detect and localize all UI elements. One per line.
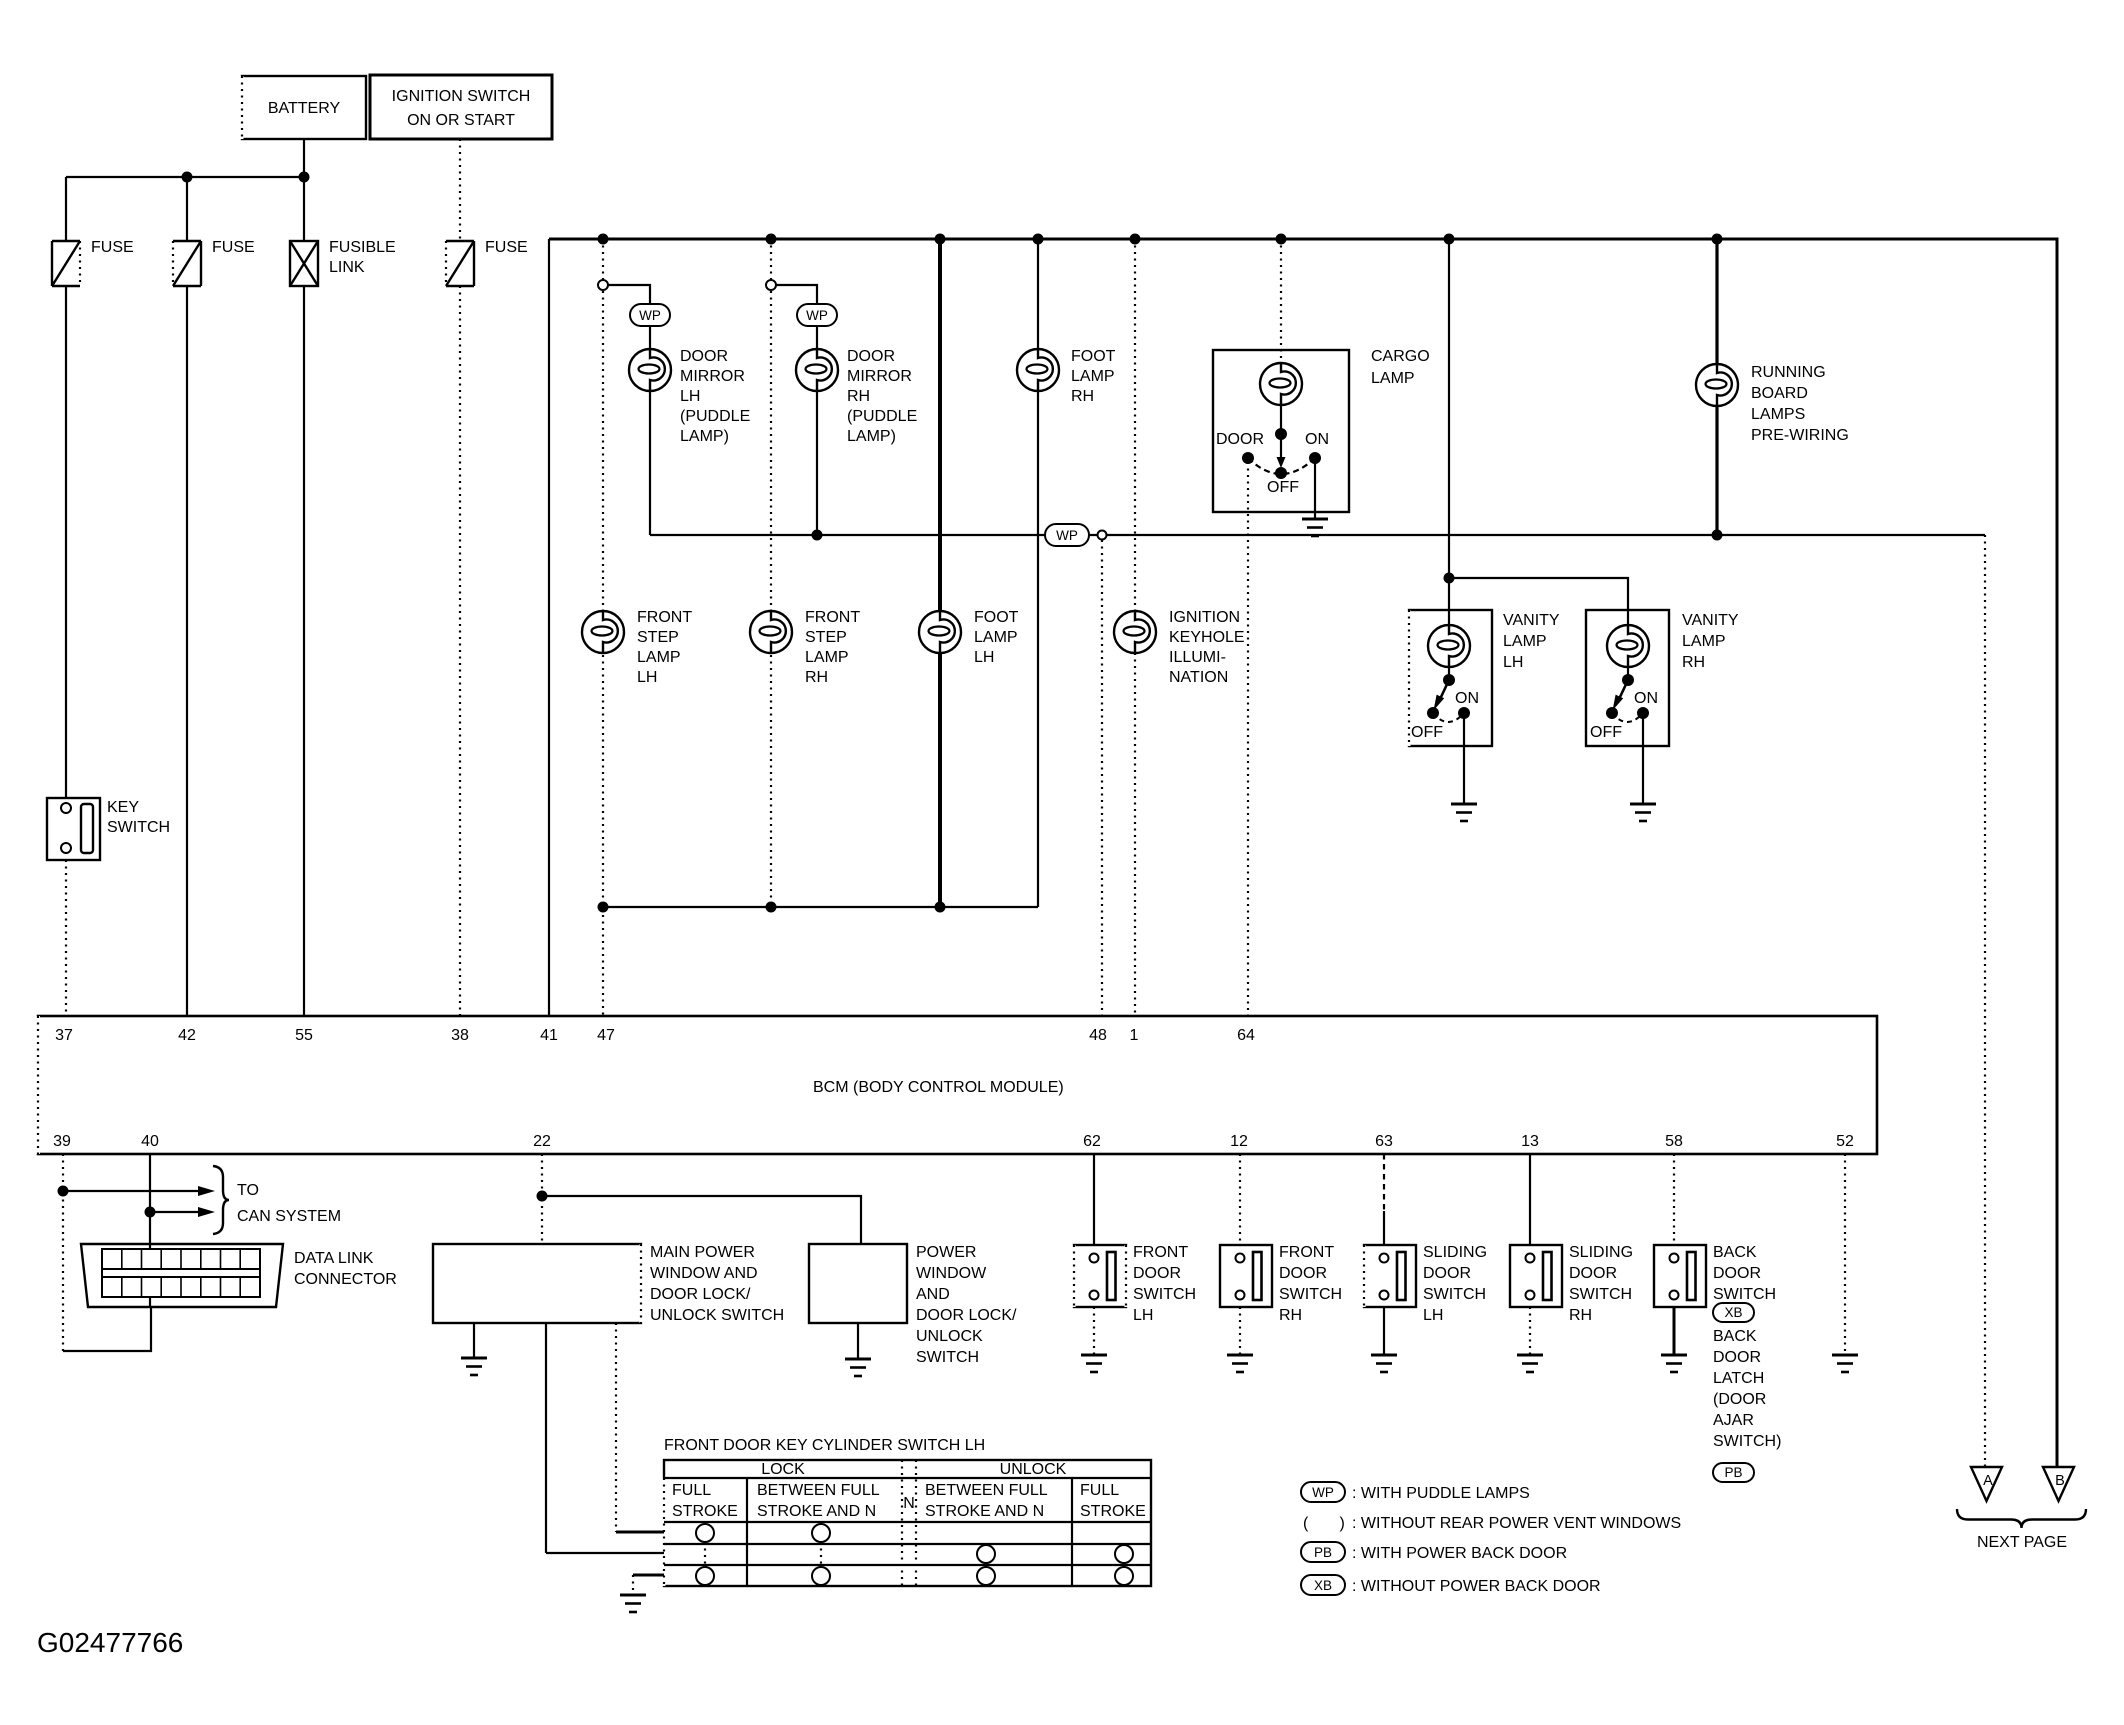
svg-text:BOARD: BOARD [1751, 385, 1808, 402]
svg-text:FULL: FULL [672, 1482, 711, 1499]
svg-text:58: 58 [1665, 1133, 1683, 1150]
svg-text:(PUDDLE: (PUDDLE [680, 408, 750, 425]
svg-text:RH: RH [1682, 654, 1705, 671]
svg-text:LH: LH [637, 669, 657, 686]
svg-text:POWER: POWER [916, 1244, 976, 1261]
svg-text:FRONT: FRONT [1279, 1244, 1334, 1261]
svg-text:DOOR: DOOR [1133, 1265, 1181, 1282]
svg-text:LAMP): LAMP) [680, 428, 729, 445]
svg-text:AND: AND [916, 1286, 950, 1303]
svg-text:DOOR: DOOR [1279, 1265, 1327, 1282]
svg-text:DOOR: DOOR [847, 348, 895, 365]
svg-text:63: 63 [1375, 1133, 1393, 1150]
svg-text:RH: RH [1071, 388, 1094, 405]
svg-text:UNLOCK: UNLOCK [1000, 1461, 1067, 1478]
svg-text:62: 62 [1083, 1133, 1101, 1150]
svg-text:VANITY: VANITY [1503, 612, 1560, 629]
svg-text:: WITH PUDDLE LAMPS: : WITH PUDDLE LAMPS [1352, 1485, 1530, 1502]
svg-text:FULL: FULL [1080, 1482, 1119, 1499]
svg-text:UNLOCK SWITCH: UNLOCK SWITCH [650, 1307, 784, 1324]
svg-text:ON: ON [1634, 690, 1658, 707]
svg-text:DOOR LOCK/: DOOR LOCK/ [916, 1307, 1017, 1324]
svg-text:SWITCH: SWITCH [1423, 1286, 1486, 1303]
svg-text:LOCK: LOCK [761, 1461, 805, 1478]
svg-text:OFF: OFF [1267, 479, 1299, 496]
svg-text:UNLOCK: UNLOCK [916, 1328, 983, 1345]
svg-text:LH: LH [1133, 1307, 1153, 1324]
svg-text:DOOR: DOOR [680, 348, 728, 365]
svg-text:G02477766: G02477766 [37, 1627, 183, 1658]
svg-text:BACK: BACK [1713, 1244, 1757, 1261]
svg-text:BATTERY: BATTERY [268, 100, 341, 117]
svg-text:KEY: KEY [107, 799, 139, 816]
svg-text:LATCH: LATCH [1713, 1370, 1764, 1387]
svg-text:LAMPS: LAMPS [1751, 406, 1805, 423]
svg-text:13: 13 [1521, 1133, 1539, 1150]
svg-text:FUSIBLE: FUSIBLE [329, 239, 396, 256]
svg-text:RH: RH [1569, 1307, 1592, 1324]
svg-text:LH: LH [1423, 1307, 1443, 1324]
svg-text:SWITCH): SWITCH) [1713, 1433, 1781, 1450]
svg-text:WP: WP [806, 308, 828, 323]
svg-text:WINDOW: WINDOW [916, 1265, 987, 1282]
svg-text:12: 12 [1230, 1133, 1248, 1150]
svg-text:OFF: OFF [1411, 724, 1443, 741]
svg-text:( ): ( ) [1303, 1515, 1345, 1532]
svg-text:FUSE: FUSE [485, 239, 528, 256]
svg-text:42: 42 [178, 1027, 196, 1044]
svg-text:FOOT: FOOT [1071, 348, 1116, 365]
svg-text:MIRROR: MIRROR [680, 368, 745, 385]
svg-text:CONNECTOR: CONNECTOR [294, 1271, 397, 1288]
svg-text:LAMP: LAMP [974, 629, 1018, 646]
svg-text:B: B [2055, 1473, 2065, 1489]
svg-text:(PUDDLE: (PUDDLE [847, 408, 917, 425]
svg-text:SWITCH: SWITCH [1133, 1286, 1196, 1303]
svg-text:WP: WP [1056, 528, 1078, 543]
svg-text:RH: RH [847, 388, 870, 405]
svg-text:LH: LH [974, 649, 994, 666]
svg-text:NEXT PAGE: NEXT PAGE [1977, 1534, 2067, 1551]
svg-text:RH: RH [1279, 1307, 1302, 1324]
svg-text:DOOR: DOOR [1713, 1349, 1761, 1366]
svg-text:ON: ON [1305, 431, 1329, 448]
svg-text:FRONT DOOR KEY CYLINDER SWITCH: FRONT DOOR KEY CYLINDER SWITCH LH [664, 1437, 985, 1454]
svg-text:LAMP): LAMP) [847, 428, 896, 445]
svg-text:DOOR: DOOR [1713, 1265, 1761, 1282]
svg-text:FUSE: FUSE [212, 239, 255, 256]
svg-text:VANITY: VANITY [1682, 612, 1739, 629]
svg-text:DOOR LOCK/: DOOR LOCK/ [650, 1286, 751, 1303]
svg-text:RUNNING: RUNNING [1751, 364, 1826, 381]
svg-text:SWITCH: SWITCH [107, 819, 170, 836]
svg-text:64: 64 [1237, 1027, 1255, 1044]
svg-text:FRONT: FRONT [637, 609, 692, 626]
svg-text:LH: LH [680, 388, 700, 405]
svg-text:47: 47 [597, 1027, 615, 1044]
svg-text:KEYHOLE: KEYHOLE [1169, 629, 1245, 646]
svg-text:XB: XB [1724, 1305, 1742, 1320]
svg-text:38: 38 [451, 1027, 469, 1044]
svg-text:37: 37 [55, 1027, 73, 1044]
svg-text:SWITCH: SWITCH [1569, 1286, 1632, 1303]
svg-text:WP: WP [639, 308, 661, 323]
svg-text:STROKE: STROKE [672, 1503, 738, 1520]
svg-text:PRE-WIRING: PRE-WIRING [1751, 427, 1849, 444]
svg-text:SWITCH: SWITCH [1713, 1286, 1776, 1303]
svg-text:ON: ON [1455, 690, 1479, 707]
svg-text:SLIDING: SLIDING [1423, 1244, 1487, 1261]
svg-text:41: 41 [540, 1027, 558, 1044]
svg-text:PB: PB [1314, 1545, 1332, 1560]
svg-text:SLIDING: SLIDING [1569, 1244, 1633, 1261]
svg-text:40: 40 [141, 1133, 159, 1150]
svg-text:IGNITION SWITCH: IGNITION SWITCH [392, 88, 531, 105]
svg-text:ON OR START: ON OR START [407, 112, 515, 129]
svg-text:RH: RH [805, 669, 828, 686]
svg-text:DOOR: DOOR [1216, 431, 1264, 448]
svg-text:CAN SYSTEM: CAN SYSTEM [237, 1208, 341, 1225]
svg-text:NATION: NATION [1169, 669, 1228, 686]
svg-text:TO: TO [237, 1182, 259, 1199]
svg-text:LAMP: LAMP [1682, 633, 1726, 650]
svg-text:OFF: OFF [1590, 724, 1622, 741]
svg-text:BETWEEN FULL: BETWEEN FULL [925, 1482, 1048, 1499]
svg-text:SWITCH: SWITCH [916, 1349, 979, 1366]
svg-text:BCM (BODY CONTROL MODULE): BCM (BODY CONTROL MODULE) [813, 1079, 1064, 1096]
svg-text:STEP: STEP [637, 629, 679, 646]
svg-text:1: 1 [1130, 1027, 1139, 1044]
svg-text:: WITH POWER BACK DOOR: : WITH POWER BACK DOOR [1352, 1545, 1567, 1562]
svg-text:39: 39 [53, 1133, 71, 1150]
svg-text:STEP: STEP [805, 629, 847, 646]
svg-text:DOOR: DOOR [1423, 1265, 1471, 1282]
svg-text:FOOT: FOOT [974, 609, 1019, 626]
svg-text:: WITHOUT REAR POWER VENT WIND: : WITHOUT REAR POWER VENT WINDOWS [1352, 1515, 1681, 1532]
svg-text:: WITHOUT POWER BACK DOOR: : WITHOUT POWER BACK DOOR [1352, 1578, 1601, 1595]
svg-text:LH: LH [1503, 654, 1523, 671]
svg-text:CARGO: CARGO [1371, 348, 1430, 365]
svg-text:STROKE AND N: STROKE AND N [925, 1503, 1044, 1520]
svg-text:52: 52 [1836, 1133, 1854, 1150]
svg-text:MIRROR: MIRROR [847, 368, 912, 385]
svg-text:BETWEEN FULL: BETWEEN FULL [757, 1482, 880, 1499]
svg-text:AJAR: AJAR [1713, 1412, 1754, 1429]
svg-text:WINDOW AND: WINDOW AND [650, 1265, 758, 1282]
svg-text:FRONT: FRONT [805, 609, 860, 626]
svg-text:DOOR: DOOR [1569, 1265, 1617, 1282]
svg-text:DATA LINK: DATA LINK [294, 1250, 374, 1267]
svg-text:IGNITION: IGNITION [1169, 609, 1240, 626]
svg-text:PB: PB [1724, 1465, 1742, 1480]
svg-text:LAMP: LAMP [805, 649, 849, 666]
svg-text:LAMP: LAMP [1503, 633, 1547, 650]
svg-text:WP: WP [1312, 1485, 1334, 1500]
svg-text:STROKE: STROKE [1080, 1503, 1146, 1520]
svg-text:LAMP: LAMP [637, 649, 681, 666]
svg-text:BACK: BACK [1713, 1328, 1757, 1345]
svg-text:55: 55 [295, 1027, 313, 1044]
svg-text:N: N [903, 1495, 915, 1512]
svg-text:FRONT: FRONT [1133, 1244, 1188, 1261]
svg-text:LINK: LINK [329, 259, 365, 276]
svg-text:XB: XB [1314, 1578, 1332, 1593]
svg-text:(DOOR: (DOOR [1713, 1391, 1766, 1408]
svg-text:48: 48 [1089, 1027, 1107, 1044]
svg-text:STROKE AND N: STROKE AND N [757, 1503, 876, 1520]
svg-text:LAMP: LAMP [1071, 368, 1115, 385]
svg-text:ILLUMI-: ILLUMI- [1169, 649, 1226, 666]
svg-text:FUSE: FUSE [91, 239, 134, 256]
svg-text:SWITCH: SWITCH [1279, 1286, 1342, 1303]
svg-text:22: 22 [533, 1133, 551, 1150]
svg-text:A: A [1983, 1473, 1993, 1489]
svg-text:LAMP: LAMP [1371, 370, 1415, 387]
svg-text:MAIN POWER: MAIN POWER [650, 1244, 755, 1261]
